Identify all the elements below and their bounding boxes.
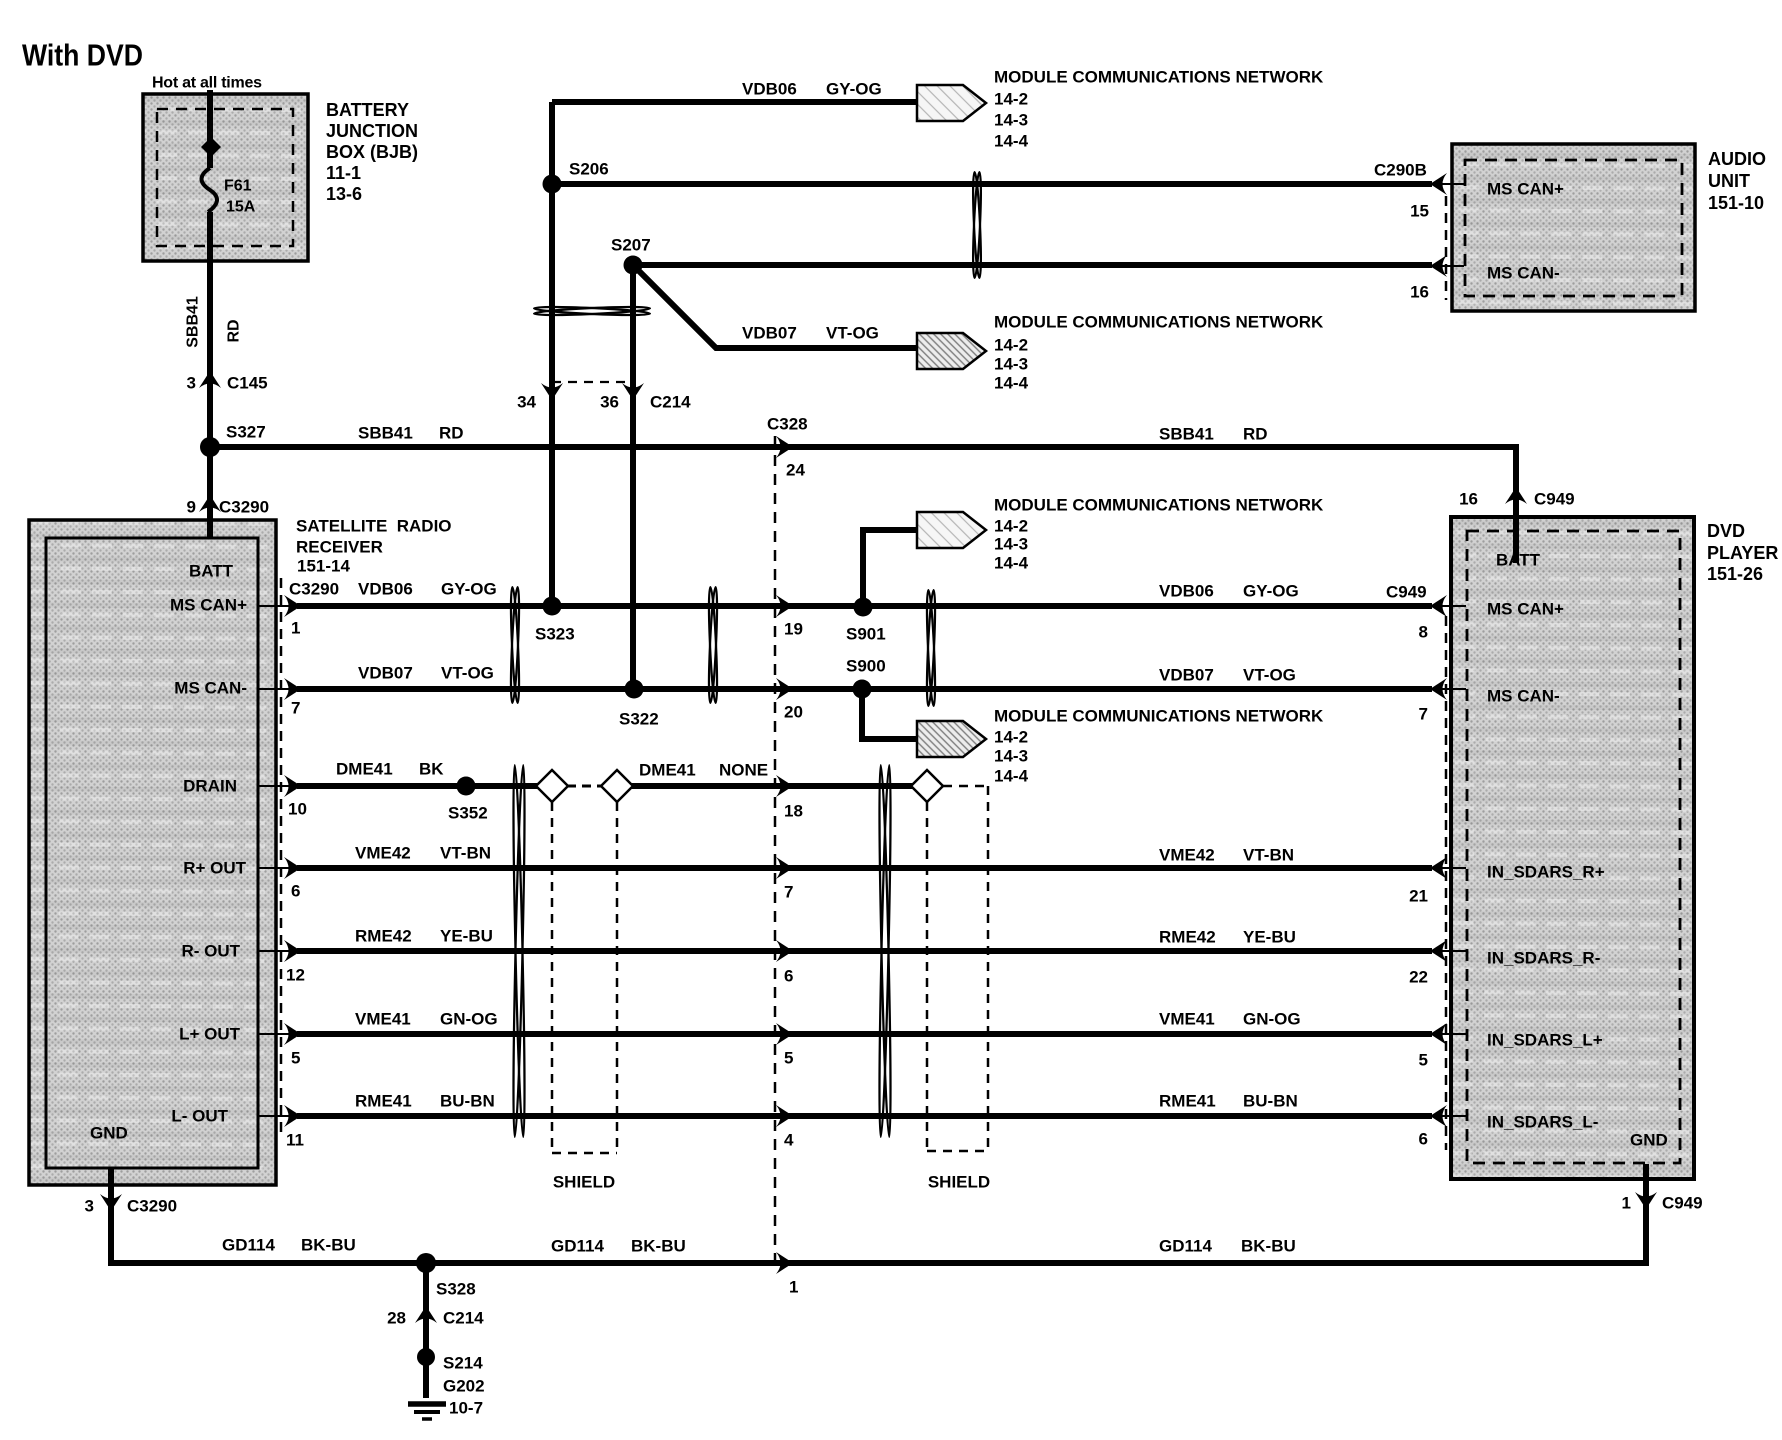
svg-text:R+ OUT: R+ OUT [183,859,246,878]
svg-text:S901: S901 [846,625,886,644]
svg-text:IN_SDARS_L-: IN_SDARS_L- [1487,1113,1598,1132]
svg-text:L- OUT: L- OUT [171,1107,228,1126]
svg-text:RME41: RME41 [355,1092,412,1111]
svg-text:16: 16 [1410,283,1429,302]
svg-text:VME41: VME41 [1159,1010,1215,1029]
svg-text:7: 7 [1419,705,1428,724]
svg-text:GND: GND [1630,1131,1668,1150]
svg-text:BK: BK [419,760,444,779]
svg-text:5: 5 [784,1049,793,1068]
svg-text:C3290: C3290 [219,498,269,517]
svg-text:VT-OG: VT-OG [1243,666,1296,685]
svg-text:BOX (BJB): BOX (BJB) [326,142,418,162]
svg-text:5: 5 [291,1049,300,1068]
svg-text:L+ OUT: L+ OUT [179,1025,241,1044]
svg-text:14-4: 14-4 [994,767,1029,786]
svg-text:6: 6 [1419,1130,1428,1149]
svg-text:SBB41: SBB41 [1159,425,1214,444]
svg-text:14-3: 14-3 [994,111,1028,130]
svg-text:C949: C949 [1386,583,1427,602]
svg-text:VT-OG: VT-OG [441,664,494,683]
svg-text:RME42: RME42 [355,927,412,946]
svg-text:3: 3 [187,374,196,393]
svg-text:14-3: 14-3 [994,355,1028,374]
svg-text:DVD: DVD [1707,521,1745,541]
svg-text:GY-OG: GY-OG [826,80,882,99]
svg-text:SBB41: SBB41 [358,424,413,443]
svg-text:1: 1 [291,619,300,638]
svg-text:R- OUT: R- OUT [181,942,240,961]
svg-text:DME41: DME41 [639,761,696,780]
svg-text:MS CAN-: MS CAN- [1487,264,1560,283]
svg-text:14-2: 14-2 [994,517,1028,536]
svg-text:RME42: RME42 [1159,928,1216,947]
svg-text:VT-BN: VT-BN [440,844,491,863]
svg-text:1: 1 [789,1278,798,1297]
svg-text:14-4: 14-4 [994,554,1029,573]
svg-text:BK-BU: BK-BU [301,1236,356,1255]
svg-text:UNIT: UNIT [1708,171,1750,191]
svg-text:SATELLITE RADIO: SATELLITE RADIO [296,517,452,536]
svg-text:C949: C949 [1662,1194,1703,1213]
svg-text:RD: RD [226,319,243,342]
svg-text:IN_SDARS_R+: IN_SDARS_R+ [1487,863,1605,882]
svg-text:RECEIVER: RECEIVER [296,538,383,557]
svg-text:15A: 15A [226,199,256,216]
svg-text:With DVD: With DVD [22,38,143,73]
svg-text:DRAIN: DRAIN [183,777,237,796]
svg-text:24: 24 [786,461,805,480]
svg-text:8: 8 [1419,623,1428,642]
svg-text:C3290: C3290 [127,1197,177,1216]
svg-text:S207: S207 [611,236,651,255]
svg-text:28: 28 [387,1309,406,1328]
svg-text:19: 19 [784,620,803,639]
svg-text:18: 18 [784,802,803,821]
svg-text:S352: S352 [448,804,488,823]
svg-text:7: 7 [784,883,793,902]
svg-text:BK-BU: BK-BU [1241,1237,1296,1256]
svg-text:MS CAN+: MS CAN+ [1487,600,1564,619]
svg-text:10: 10 [288,800,307,819]
svg-text:SHIELD: SHIELD [928,1173,990,1192]
svg-text:C145: C145 [227,374,268,393]
svg-text:VDB07: VDB07 [1159,666,1214,685]
svg-text:MS CAN-: MS CAN- [1487,687,1560,706]
svg-text:VT-BN: VT-BN [1243,846,1294,865]
svg-text:BK-BU: BK-BU [631,1237,686,1256]
svg-text:MS CAN+: MS CAN+ [1487,180,1564,199]
svg-text:VME42: VME42 [1159,846,1215,865]
svg-text:S327: S327 [226,423,266,442]
svg-text:20: 20 [784,703,803,722]
svg-text:S328: S328 [436,1280,476,1299]
svg-text:36: 36 [600,393,619,412]
svg-text:YE-BU: YE-BU [1243,928,1296,947]
svg-text:12: 12 [286,966,305,985]
svg-text:BU-BN: BU-BN [1243,1092,1298,1111]
svg-text:MODULE COMMUNICATIONS NETWORK: MODULE COMMUNICATIONS NETWORK [994,313,1324,332]
svg-text:13-6: 13-6 [326,184,362,204]
svg-text:14-2: 14-2 [994,90,1028,109]
svg-text:IN_SDARS_R-: IN_SDARS_R- [1487,949,1600,968]
svg-text:6: 6 [291,882,300,901]
svg-text:S322: S322 [619,710,659,729]
svg-text:GY-OG: GY-OG [441,580,497,599]
svg-text:S323: S323 [535,625,575,644]
svg-text:JUNCTION: JUNCTION [326,121,418,141]
svg-text:RD: RD [1243,425,1268,444]
svg-text:VT-OG: VT-OG [826,324,879,343]
svg-text:14-4: 14-4 [994,132,1029,151]
svg-text:3: 3 [85,1197,94,1216]
svg-text:GD114: GD114 [551,1237,604,1256]
svg-text:15: 15 [1410,202,1429,221]
svg-text:C290B: C290B [1374,161,1427,180]
svg-text:GN-OG: GN-OG [440,1010,498,1029]
svg-text:6: 6 [784,967,793,986]
svg-text:VDB06: VDB06 [1159,582,1214,601]
svg-text:S900: S900 [846,657,886,676]
svg-text:SBB41: SBB41 [185,296,202,348]
svg-text:AUDIO: AUDIO [1708,149,1766,169]
svg-text:PLAYER: PLAYER [1707,543,1778,563]
svg-text:GD114: GD114 [1159,1237,1212,1256]
svg-text:10-7: 10-7 [449,1399,483,1418]
svg-text:Hot at all times: Hot at all times [152,75,262,92]
svg-text:5: 5 [1419,1051,1428,1070]
svg-text:VME41: VME41 [355,1010,411,1029]
svg-text:MS CAN+: MS CAN+ [170,596,247,615]
svg-text:YE-BU: YE-BU [440,927,493,946]
svg-text:14-3: 14-3 [994,747,1028,766]
svg-text:VDB07: VDB07 [742,324,797,343]
svg-text:RME41: RME41 [1159,1092,1216,1111]
svg-text:VDB07: VDB07 [358,664,413,683]
svg-text:9: 9 [187,498,196,517]
svg-text:BATTERY: BATTERY [326,100,409,120]
svg-text:SHIELD: SHIELD [553,1173,615,1192]
svg-text:C328: C328 [767,415,808,434]
svg-text:F61: F61 [224,178,252,195]
svg-text:7: 7 [291,699,300,718]
svg-text:34: 34 [517,393,536,412]
svg-text:BATT: BATT [1496,551,1541,570]
svg-text:21: 21 [1409,887,1428,906]
svg-text:GY-OG: GY-OG [1243,582,1299,601]
svg-text:RD: RD [439,424,464,443]
svg-text:VDB06: VDB06 [742,80,797,99]
svg-text:DME41: DME41 [336,760,393,779]
svg-text:151-26: 151-26 [1707,564,1763,584]
svg-text:GD114: GD114 [222,1236,275,1255]
svg-text:14-3: 14-3 [994,535,1028,554]
svg-text:NONE: NONE [719,761,768,780]
svg-text:BU-BN: BU-BN [440,1092,495,1111]
svg-text:IN_SDARS_L+: IN_SDARS_L+ [1487,1031,1603,1050]
svg-text:14-2: 14-2 [994,728,1028,747]
svg-text:14-4: 14-4 [994,374,1029,393]
svg-text:MODULE COMMUNICATIONS NETWORK: MODULE COMMUNICATIONS NETWORK [994,496,1324,515]
svg-text:S206: S206 [569,160,609,179]
svg-text:VDB06: VDB06 [358,580,413,599]
svg-text:MODULE COMMUNICATIONS NETWORK: MODULE COMMUNICATIONS NETWORK [994,707,1324,726]
svg-text:14-2: 14-2 [994,336,1028,355]
svg-text:22: 22 [1409,968,1428,987]
svg-text:C214: C214 [650,393,691,412]
svg-text:11: 11 [286,1131,304,1150]
svg-text:S214: S214 [443,1354,483,1373]
svg-text:11-1: 11-1 [326,163,361,183]
svg-text:VME42: VME42 [355,844,411,863]
svg-text:4: 4 [784,1131,794,1150]
svg-text:GND: GND [90,1124,128,1143]
svg-text:1: 1 [1622,1194,1631,1213]
svg-text:C949: C949 [1534,490,1575,509]
svg-text:BATT: BATT [189,562,234,581]
svg-text:C214: C214 [443,1309,484,1328]
svg-text:16: 16 [1459,490,1478,509]
svg-text:151-10: 151-10 [1708,193,1764,213]
svg-text:C3290: C3290 [289,580,339,599]
svg-text:MS CAN-: MS CAN- [174,679,247,698]
svg-text:151-14: 151-14 [297,557,350,576]
svg-text:GN-OG: GN-OG [1243,1010,1301,1029]
svg-text:G202: G202 [443,1377,485,1396]
svg-text:MODULE COMMUNICATIONS NETWORK: MODULE COMMUNICATIONS NETWORK [994,68,1324,87]
